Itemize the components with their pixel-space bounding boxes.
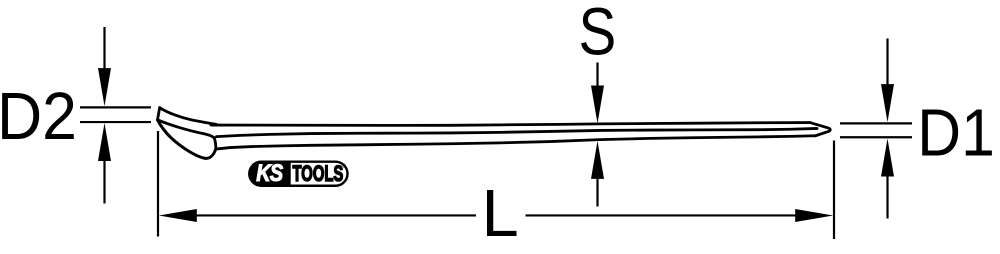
bar right tip nose bbox=[810, 123, 830, 136]
dimension L: right extension line bbox=[833, 140, 835, 239]
bar top edge bbox=[211, 123, 810, 126]
dimension D2: lower extension line bbox=[80, 121, 151, 123]
dimension D2: upper arrowhead bbox=[98, 68, 111, 106]
dimension S: upper arrowhead bbox=[591, 86, 604, 124]
KS Tools logo: black left field bbox=[248, 161, 290, 187]
svg-text:®: ® bbox=[342, 162, 346, 169]
dimension D1: upper extension line bbox=[840, 122, 912, 124]
dimension L: left dimension line segment bbox=[194, 214, 476, 216]
dimension D1: upper arrowhead bbox=[881, 84, 894, 122]
pry bar blade heel edge bbox=[214, 138, 216, 149]
bar middle line bbox=[217, 128, 818, 136]
svg-text:L: L bbox=[482, 176, 519, 251]
dimension S: upper dimension line bbox=[596, 62, 598, 90]
dimension D2: upper extension line bbox=[80, 106, 151, 108]
dimension L: left arrowhead bbox=[159, 209, 197, 222]
dimension S: lower dimension line bbox=[596, 176, 598, 206]
pry bar blade tip edge bbox=[158, 108, 160, 120]
svg-text:S: S bbox=[579, 0, 617, 70]
dimension L: right arrowhead bbox=[795, 209, 833, 222]
dimension D2: upper dimension line bbox=[103, 27, 105, 72]
svg-text:D1: D1 bbox=[917, 95, 995, 170]
dimension D1: lower dimension line bbox=[886, 173, 888, 218]
dimension D2: lower arrowhead bbox=[98, 123, 111, 161]
svg-text:TOOLS: TOOLS bbox=[293, 161, 344, 186]
svg-text:D2: D2 bbox=[0, 78, 77, 153]
pry bar blade top edge bbox=[160, 108, 216, 125]
dimension D1: upper dimension line bbox=[886, 38, 888, 88]
bar bottom edge bbox=[216, 136, 816, 149]
KS Tools logo: stadium outline bbox=[249, 162, 347, 186]
dimension D1: lower extension line bbox=[840, 136, 912, 138]
svg-text:KS: KS bbox=[256, 159, 283, 186]
dimension L: left extension line bbox=[157, 131, 159, 237]
dimension D1: lower arrowhead bbox=[881, 138, 894, 176]
dimension D2: lower dimension line bbox=[103, 158, 105, 203]
dimension L: right dimension line segment bbox=[526, 214, 800, 216]
dimension S: lower arrowhead bbox=[591, 141, 604, 179]
pry bar blade inner edge bbox=[158, 120, 215, 138]
pry bar blade spoon bottom curve bbox=[158, 120, 216, 159]
